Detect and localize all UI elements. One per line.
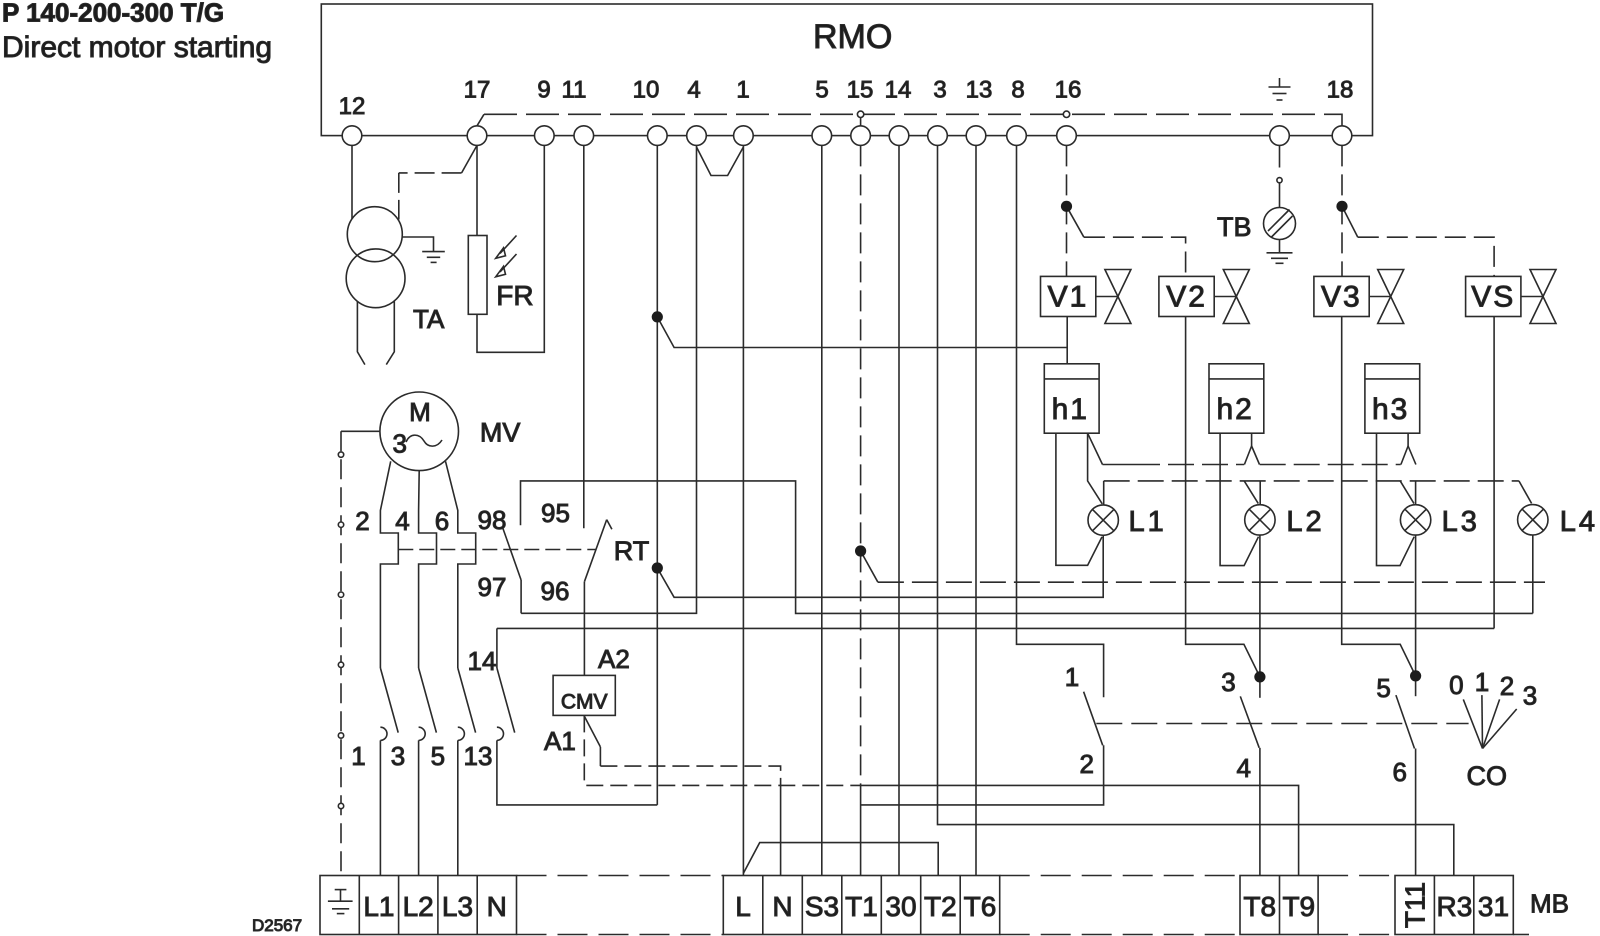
svg-text:11: 11 [562,77,587,104]
svg-text:5: 5 [431,741,445,771]
svg-text:A1: A1 [544,726,576,756]
svg-text:4: 4 [687,77,700,104]
svg-text:10: 10 [633,77,660,104]
svg-text:3: 3 [933,77,946,104]
svg-text:96: 96 [541,576,570,606]
svg-text:L3: L3 [1442,506,1480,538]
svg-text:4: 4 [395,506,409,536]
svg-text:31: 31 [1478,891,1509,922]
svg-text:9: 9 [537,77,550,104]
svg-text:6: 6 [435,506,449,536]
svg-text:TB: TB [1217,212,1252,242]
svg-text:2: 2 [1079,749,1093,779]
svg-text:Direct motor starting: Direct motor starting [2,31,272,64]
svg-text:T1: T1 [845,891,878,922]
svg-text:15: 15 [847,77,874,104]
svg-text:6: 6 [1392,757,1406,787]
svg-text:S3: S3 [805,891,839,922]
svg-text:3: 3 [1221,667,1235,697]
svg-text:MV: MV [480,418,521,448]
svg-text:h3: h3 [1372,393,1409,426]
svg-text:0: 0 [1449,670,1463,700]
svg-text:L2: L2 [403,891,434,922]
svg-text:8: 8 [1011,77,1024,104]
svg-text:1: 1 [736,77,749,104]
svg-text:h2: h2 [1217,393,1254,426]
svg-text:98: 98 [478,505,507,535]
svg-text:TA: TA [413,304,445,334]
svg-text:V2: V2 [1166,281,1207,314]
svg-text:4: 4 [1236,753,1250,783]
svg-text:V1: V1 [1048,281,1089,314]
svg-text:13: 13 [966,77,993,104]
svg-text:1: 1 [1475,667,1489,697]
svg-text:T11: T11 [1399,882,1430,928]
svg-text:5: 5 [1376,673,1390,703]
svg-text:2: 2 [1500,671,1514,701]
svg-text:D2567: D2567 [252,916,302,935]
svg-text:1: 1 [351,741,365,771]
svg-text:A2: A2 [598,644,630,674]
svg-text:16: 16 [1055,77,1082,104]
svg-text:L4: L4 [1560,506,1598,538]
svg-text:M: M [409,397,431,427]
svg-text:T9: T9 [1282,891,1315,922]
svg-text:L2: L2 [1286,506,1324,538]
svg-text:P 140-200-300 T/G: P 140-200-300 T/G [2,0,224,28]
svg-text:97: 97 [478,572,507,602]
svg-text:5: 5 [815,77,828,104]
svg-text:95: 95 [541,498,570,528]
svg-text:VS: VS [1471,281,1515,314]
svg-text:13: 13 [464,741,493,771]
svg-text:17: 17 [464,77,491,104]
svg-text:3: 3 [1523,681,1537,711]
svg-text:h1: h1 [1052,393,1089,426]
svg-text:12: 12 [339,93,366,120]
svg-text:T2: T2 [924,891,957,922]
svg-text:2: 2 [355,506,369,536]
svg-text:14: 14 [468,646,497,676]
svg-text:CO: CO [1467,761,1508,791]
svg-text:1: 1 [1065,662,1079,692]
svg-text:14: 14 [885,77,912,104]
svg-text:L3: L3 [442,891,473,922]
svg-text:T6: T6 [964,891,997,922]
svg-text:18: 18 [1327,77,1354,104]
svg-text:30: 30 [885,891,916,922]
svg-text:RT: RT [614,536,650,566]
svg-text:3: 3 [392,429,406,459]
svg-text:3: 3 [391,741,405,771]
svg-text:N: N [487,891,507,922]
svg-text:L1: L1 [363,891,394,922]
svg-text:N: N [772,891,792,922]
svg-text:L: L [735,891,751,922]
svg-text:R3: R3 [1437,891,1473,922]
svg-text:L1: L1 [1129,506,1167,538]
svg-text:MB: MB [1530,889,1569,919]
svg-text:RMO: RMO [813,18,892,56]
svg-text:T8: T8 [1243,891,1276,922]
svg-text:V3: V3 [1321,281,1362,314]
svg-text:CMV: CMV [561,691,608,714]
svg-text:FR: FR [496,280,533,311]
